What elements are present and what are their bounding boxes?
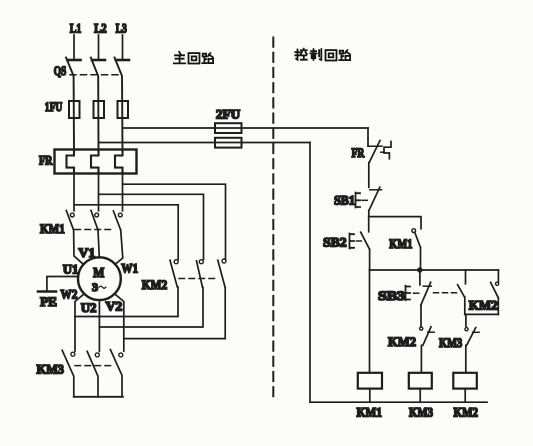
motor M 3~ (60, 245, 138, 315)
SB1 stop button (NC) (334, 187, 382, 216)
KM2 NC interlock (in KM3 branch) (388, 327, 434, 373)
svg-text:KM1: KM1 (40, 221, 65, 236)
wire tap L2 to 2FU (bottom control feed) (99, 142, 311, 144)
terminal L2 (92, 20, 107, 60)
svg-text:FR: FR (39, 152, 53, 167)
svg-text:L2: L2 (94, 20, 107, 35)
wire V2 tap to KM2-C bottom (124, 288, 225, 339)
contactor KM2 main contacts (142, 259, 226, 292)
wire tap L3 to 2FU (top control feed) (123, 127, 369, 129)
svg-text:U2: U2 (81, 300, 97, 315)
svg-text:PE: PE (40, 294, 57, 309)
wire tap phase2 to KM2-B (99, 194, 204, 259)
svg-text:KM3: KM3 (37, 361, 65, 376)
wire U2 tap to KM2-B bottom (99, 287, 203, 327)
contactor KM1 main contacts (40, 211, 122, 236)
label main circuit 主回路 (174, 52, 213, 64)
fuse 1FU (45, 99, 128, 118)
KM2 auxiliary self-hold contact (465, 270, 499, 314)
svg-text:SB2: SB2 (323, 235, 347, 250)
KM3 NC interlock (in KM2 branch) (439, 314, 479, 372)
terminal L3 (116, 20, 129, 60)
thermal relay FR heaters (39, 150, 137, 174)
wire tap phase3 to KM2-C (123, 184, 226, 259)
SB3 compound button NO part (458, 270, 466, 314)
svg-text:M: M (93, 265, 104, 280)
svg-text:KM1: KM1 (357, 405, 383, 420)
svg-text:SB1: SB1 (334, 192, 355, 207)
SB3 compound button NC part (378, 270, 457, 327)
KM1 coil drop (369, 270, 371, 373)
rail node B (370, 269, 499, 271)
svg-text:1FU: 1FU (45, 99, 63, 114)
coil KM2 (453, 373, 478, 420)
svg-text:KM2: KM2 (454, 405, 479, 420)
svg-text:L3: L3 (116, 20, 128, 35)
svg-text:L1: L1 (70, 20, 82, 35)
svg-text:W2: W2 (60, 286, 77, 301)
svg-text:QS: QS (54, 63, 67, 78)
svg-text:W1: W1 (121, 261, 138, 276)
svg-text:U1: U1 (63, 262, 79, 277)
svg-text:KM3: KM3 (439, 335, 463, 350)
svg-text:V2: V2 (106, 299, 123, 314)
wire FR to KM1 phase2 (98, 174, 100, 211)
wire KM1 to motor W1 (115, 230, 123, 265)
svg-text:KM3: KM3 (409, 405, 433, 420)
bottom rail (310, 401, 487, 403)
wire KM1 to motor V1 (98, 230, 99, 257)
wire control top feed corner (367, 128, 369, 139)
svg-text:2FU: 2FU (216, 106, 241, 121)
label control circuit 控制回路 (295, 49, 350, 61)
junction dot (417, 267, 422, 272)
wire motor V2 down (115, 294, 124, 351)
SB2 start button (NO) (323, 217, 370, 270)
separator dashed line (272, 38, 274, 399)
KM1 auxiliary contact (NO, self hold) (389, 229, 420, 270)
svg-text:KM2: KM2 (469, 297, 498, 312)
svg-text:3: 3 (92, 280, 98, 294)
wire W2 tap to KM2-A bottom (75, 287, 178, 317)
ground PE (38, 277, 78, 310)
svg-text:SB3: SB3 (378, 288, 406, 303)
wire left control rail (309, 143, 311, 403)
fuse 2FU (215, 106, 242, 147)
wire motor W2 down (75, 294, 84, 351)
contactor KM3 main contacts (37, 350, 123, 397)
disconnector QS (54, 58, 123, 151)
wire tap phase1 to KM2-A (74, 205, 178, 260)
wire KM1 to motor U1 (74, 230, 84, 265)
wire FR to KM1 phase3 (122, 174, 124, 211)
wire motor U2 down (98, 300, 100, 351)
coil KM3 (409, 373, 434, 420)
svg-text:KM1: KM1 (389, 236, 412, 251)
terminal L1 (68, 20, 82, 60)
svg-text:V1: V1 (78, 245, 95, 260)
coil KM1 (357, 373, 383, 420)
svg-text:FR: FR (352, 145, 365, 160)
wire FR to KM1 phase1 (73, 174, 75, 211)
FR NC contact (control) (352, 139, 392, 188)
svg-text:KM2: KM2 (142, 277, 167, 292)
star point bar (74, 396, 123, 398)
svg-text:KM2: KM2 (388, 334, 416, 349)
node A wire to KM1 aux (369, 217, 421, 229)
